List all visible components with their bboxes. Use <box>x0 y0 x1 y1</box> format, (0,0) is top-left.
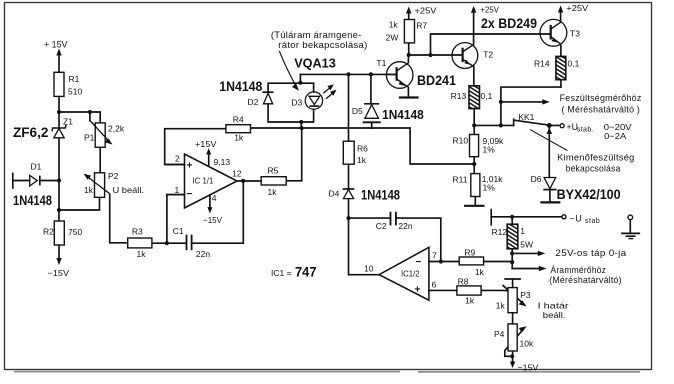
svg-text:−15V: −15V <box>203 215 222 225</box>
svg-text:C2: C2 <box>376 221 387 231</box>
svg-text:10: 10 <box>364 264 374 274</box>
svg-text:+25V: +25V <box>566 3 588 13</box>
svg-text:R8: R8 <box>458 277 469 287</box>
svg-text:D3: D3 <box>291 98 302 108</box>
svg-text:R12: R12 <box>492 227 508 237</box>
svg-text:1k: 1k <box>389 20 399 30</box>
svg-text:2W: 2W <box>386 33 399 43</box>
svg-text:1k: 1k <box>234 133 244 143</box>
svg-text:+: + <box>187 161 193 172</box>
svg-text:10k: 10k <box>520 339 534 349</box>
svg-text:+25V: +25V <box>480 5 499 15</box>
svg-text:1%: 1% <box>483 183 496 193</box>
svg-text:D1: D1 <box>31 162 42 172</box>
svg-text:VQA13: VQA13 <box>294 55 336 70</box>
svg-text:R5: R5 <box>268 166 279 176</box>
svg-text:750: 750 <box>68 227 82 237</box>
svg-text:−: − <box>416 257 422 268</box>
svg-text:2,2k: 2,2k <box>108 124 125 134</box>
svg-text:2: 2 <box>175 154 180 164</box>
svg-text:T2: T2 <box>483 50 493 60</box>
svg-text:R14: R14 <box>534 58 550 68</box>
svg-text:2x BD249: 2x BD249 <box>481 15 537 31</box>
svg-text:9,13: 9,13 <box>214 157 231 167</box>
svg-text:1k: 1k <box>137 249 147 259</box>
svg-text:R9: R9 <box>464 247 475 257</box>
svg-text:R2: R2 <box>43 227 54 237</box>
svg-text:IC1/2: IC1/2 <box>401 269 420 278</box>
svg-text:BYX42/100: BYX42/100 <box>557 187 621 202</box>
svg-text:1: 1 <box>520 226 525 236</box>
svg-text:P4: P4 <box>494 329 505 339</box>
svg-text:7: 7 <box>432 251 437 261</box>
svg-text:−15V: −15V <box>518 362 539 372</box>
svg-text:R4: R4 <box>233 115 244 125</box>
svg-text:U beáll.: U beáll. <box>113 185 145 195</box>
svg-text:Árammérőhöz: Árammérőhöz <box>551 265 607 275</box>
svg-text:0−2A: 0−2A <box>604 131 626 141</box>
svg-text:1k: 1k <box>496 300 506 310</box>
svg-text:P2: P2 <box>108 171 119 181</box>
svg-text:IC 1/1: IC 1/1 <box>193 177 214 186</box>
svg-text:1k: 1k <box>357 155 367 165</box>
svg-text:−U: −U <box>569 213 582 223</box>
svg-text:747: 747 <box>295 264 317 280</box>
svg-text:1: 1 <box>175 185 180 195</box>
svg-text:P1: P1 <box>84 133 95 143</box>
svg-text:1N4148: 1N4148 <box>361 187 400 203</box>
svg-text:R7: R7 <box>416 21 427 31</box>
svg-text:510: 510 <box>68 87 82 97</box>
svg-text:22n: 22n <box>196 249 210 259</box>
svg-text:I határ: I határ <box>538 301 569 311</box>
svg-text:6: 6 <box>432 280 437 290</box>
svg-text:1N4148: 1N4148 <box>219 79 262 94</box>
svg-text:1N4148: 1N4148 <box>13 192 52 208</box>
svg-text:+: + <box>415 285 421 296</box>
svg-text:D5: D5 <box>352 106 363 116</box>
svg-text:1k: 1k <box>268 187 278 197</box>
svg-text:1k: 1k <box>475 267 485 277</box>
svg-text:R1: R1 <box>69 74 80 84</box>
svg-text:1N4148: 1N4148 <box>382 107 424 122</box>
svg-text:T1: T1 <box>376 58 386 68</box>
svg-text:Kimenőfeszültség: Kimenőfeszültség <box>557 153 635 163</box>
svg-text:D6: D6 <box>531 174 542 184</box>
svg-text:stab.: stab. <box>577 127 594 134</box>
svg-text:+ 15V: + 15V <box>44 40 68 50</box>
svg-text:25V-os táp 0-ja: 25V-os táp 0-ja <box>555 248 626 258</box>
svg-text:bekapcsolása: bekapcsolása <box>566 163 621 173</box>
svg-text:R13: R13 <box>451 91 467 101</box>
svg-text:ZF6,2: ZF6,2 <box>13 125 48 140</box>
svg-text:1%: 1% <box>483 144 496 154</box>
svg-text:5W: 5W <box>520 239 533 249</box>
svg-text:R3: R3 <box>132 227 143 237</box>
svg-text:+15V: +15V <box>195 139 217 149</box>
svg-text:4: 4 <box>212 193 217 203</box>
svg-text:stab: stab <box>585 218 600 225</box>
svg-text:IC1 =: IC1 = <box>271 268 292 278</box>
svg-text:+25V: +25V <box>415 6 437 16</box>
svg-text:BD241: BD241 <box>417 73 456 88</box>
svg-text:T3: T3 <box>570 29 580 39</box>
svg-text:beáll.: beáll. <box>543 310 566 320</box>
svg-text:rátor bekapcsolása): rátor bekapcsolása) <box>278 40 367 50</box>
svg-text:−: − <box>187 189 193 200</box>
svg-text:R10: R10 <box>453 135 469 145</box>
svg-text:0,1: 0,1 <box>568 59 580 69</box>
svg-text:Z1: Z1 <box>63 117 73 127</box>
svg-text:0,1: 0,1 <box>481 91 493 101</box>
svg-text:(Túláram áramgene-: (Túláram áramgene- <box>271 30 362 40</box>
svg-text:D2: D2 <box>248 97 259 107</box>
svg-text:−15V: −15V <box>48 268 70 278</box>
svg-text:P3: P3 <box>520 290 531 300</box>
svg-text:1k: 1k <box>84 185 94 195</box>
svg-text:C1: C1 <box>173 226 184 236</box>
svg-text:12: 12 <box>232 169 242 179</box>
svg-text:R11: R11 <box>453 175 468 185</box>
svg-text:1k: 1k <box>465 296 475 306</box>
svg-text:( Méréshatárváltó ): ( Méréshatárváltó ) <box>562 105 641 115</box>
svg-text:22n: 22n <box>398 221 412 231</box>
svg-text:KK1: KK1 <box>518 112 534 122</box>
svg-text:R6: R6 <box>357 144 368 154</box>
svg-text:D4: D4 <box>329 189 340 199</box>
svg-text:(Méréshatárváltó): (Méréshatárváltó) <box>549 275 622 285</box>
svg-text:Feszültségmérőhöz: Feszültségmérőhöz <box>560 93 642 103</box>
